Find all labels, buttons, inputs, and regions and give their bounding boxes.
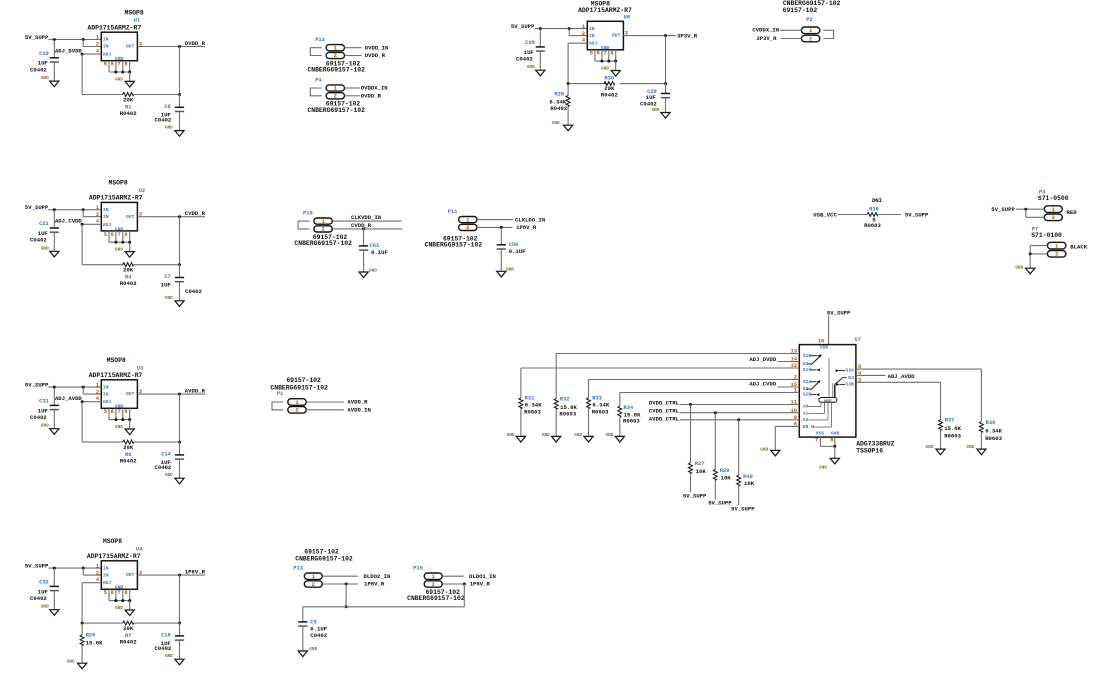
U7 right pin numbers [858,364,862,383]
svg-text:GND: GND [115,248,123,253]
svg-text:5V_SUPP: 5V_SUPP [731,505,755,512]
svg-text:GND: GND [115,425,123,430]
wire P10 pin 1 [332,220,401,222]
svg-text:20K: 20K [123,444,134,451]
connector P7 header labels [1031,227,1062,239]
wire 1P8V bus to C5 [303,584,465,622]
wire P2 pin 1 [780,29,801,31]
svg-text:S1B: S1B [803,353,812,359]
svg-text:ADJ_CVDD: ADJ_CVDD [749,381,776,388]
svg-text:IN: IN [589,26,595,32]
svg-text:RED: RED [1067,209,1078,216]
part number P1 [270,377,328,391]
svg-text:GND: GND [1015,265,1023,270]
capacitor C19 [30,40,59,82]
svg-text:C32: C32 [39,580,49,586]
svg-text:C14: C14 [161,452,171,458]
svg-text:CLKLDO_IN: CLKLDO_IN [515,216,545,223]
svg-text:S2A: S2A [803,379,812,385]
svg-text:C0402: C0402 [310,632,327,639]
svg-text:GND: GND [506,268,514,273]
ground at R28 [552,121,573,131]
ground at C32 [41,605,59,616]
svg-text:ADJ: ADJ [103,580,112,586]
svg-text:8: 8 [124,590,127,596]
svg-text:CVDD_R: CVDD_R [351,222,372,229]
svg-text:R0603: R0603 [944,432,961,439]
net 3P3V_R [756,35,777,42]
net 5V_SUPP at R27 [683,493,707,500]
net AVDD_CTRL [649,415,680,422]
wire P2 pin 2 [781,38,802,40]
svg-text:ADJ: ADJ [103,222,112,228]
refdes P2 [806,17,812,23]
svg-text:C0402: C0402 [30,595,47,602]
svg-text:3P3V_R: 3P3V_R [677,32,698,39]
svg-text:20K: 20K [123,267,134,274]
net 1P8V_R [185,568,206,575]
ground at R37 [926,445,946,455]
svg-text:R36: R36 [869,206,879,212]
resistor R6 20K [120,440,137,464]
net USB_VCC [813,212,837,219]
svg-text:C0402: C0402 [30,67,47,74]
svg-text:ADJ: ADJ [589,41,598,47]
svg-text:CLKVDD_IN: CLKVDD_IN [351,214,381,221]
wire U2 output [137,215,205,266]
ground at C28 [527,65,545,76]
ground at C61 [359,268,377,277]
connector P1 [277,391,306,414]
svg-text:1: 1 [96,382,99,388]
connector P13 [293,565,322,587]
svg-text:EN_N: EN_N [803,424,814,430]
svg-text:C0402: C0402 [30,414,47,421]
svg-text:3P3V_R: 3P3V_R [756,35,777,42]
net 3P3V_R [677,32,698,39]
svg-text:8: 8 [124,62,127,68]
svg-text:2: 2 [466,224,469,231]
net DVDD_CTRL [649,399,680,406]
svg-text:R30: R30 [604,75,614,81]
svg-text:5V_SUPP: 5V_SUPP [25,34,49,41]
net 1P8V_R [516,224,537,231]
svg-text:1UF: 1UF [161,282,172,289]
svg-text:C7: C7 [164,274,170,280]
svg-text:6.34K: 6.34K [985,427,1002,434]
wire 5V_SUPP to U4 pin 1 [48,567,101,576]
svg-text:BLACK: BLACK [1070,244,1087,251]
svg-text:CNBERG69157-102: CNBERG69157-102 [295,555,353,562]
svg-text:MSOP8: MSOP8 [107,357,126,364]
svg-text:GND: GND [606,433,614,438]
svg-text:1P8V_R: 1P8V_R [470,581,491,588]
wire U7 pin 12 to R31 [521,368,799,398]
wire ADJ node U4 [82,583,101,623]
svg-text:7: 7 [118,62,121,68]
connector P3 [1044,206,1062,221]
ground at R38 [966,445,986,455]
svg-text:S3B: S3B [845,382,854,388]
svg-text:5: 5 [104,62,107,68]
svg-text:GND: GND [369,268,377,273]
svg-text:CVDDX_IN: CVDDX_IN [752,27,779,34]
part number P2 [783,0,841,14]
net 5V_SUPP at P3 [991,206,1015,213]
capacitor C32 [30,568,59,610]
svg-text:2: 2 [96,389,99,395]
net AVDD_R [347,399,368,406]
svg-text:GND: GND [926,445,934,450]
svg-text:2: 2 [1055,251,1058,258]
svg-text:2: 2 [96,212,99,218]
svg-text:P1: P1 [277,391,283,397]
svg-text:C0402: C0402 [155,464,172,471]
net DVDD_R [185,40,206,47]
wire P7 to ground [1029,246,1048,269]
svg-text:5V_SUPP: 5V_SUPP [905,212,929,219]
svg-text:OUT: OUT [126,391,135,397]
ground at R34 [606,433,625,442]
net CVDDX_IN [752,27,779,34]
resistor R7 20K [120,621,137,645]
net DVDD_R [361,92,382,99]
ground at C31 [41,424,59,435]
net CLKVDD_IN [351,214,381,221]
svg-text:DVDD_R: DVDD_R [365,52,386,59]
svg-text:20K: 20K [123,97,134,104]
ground at R31 [507,433,526,442]
wire AVDD_CTRL to U7 pin 9 [680,418,799,475]
svg-text:GND: GND [67,660,75,665]
svg-text:VSS: VSS [816,430,825,436]
ground at U6 pins [601,67,620,77]
ground at C19 [41,76,59,87]
svg-text:P4: P4 [315,77,322,83]
wire U7 pin 1 to R34 [620,393,800,406]
svg-text:S71-0500: S71-0500 [1038,195,1069,202]
op-amp U3 header labels [89,357,144,379]
svg-text:GND: GND [41,76,49,81]
net ADJ_DVDD [55,47,82,54]
capacitor C61 0.1UF [359,228,389,272]
svg-text:R0603: R0603 [592,408,609,415]
svg-text:D3: D3 [848,375,854,381]
resistor R27 10K [689,461,707,492]
svg-text:2: 2 [295,407,298,414]
connector P10 [303,210,332,232]
wire feedback row U6 [568,83,665,85]
svg-text:69157-102: 69157-102 [304,548,339,555]
capacitor C50 0.1UF [497,228,526,272]
svg-text:2: 2 [1052,214,1055,221]
ground at U3 pins [115,425,134,435]
wire ADJ node U6 [568,43,587,83]
svg-text:A2: A2 [803,417,809,423]
svg-text:S3A: S3A [845,368,854,374]
wire 5V_SUPP to P3 [1016,208,1044,218]
capacitor C29 [640,84,670,113]
capacitor C5 0.1UF [298,620,328,652]
net 5V_SUPP at U4 [25,563,49,570]
U7 left pin numbers [791,349,798,428]
svg-text:5V_SUPP: 5V_SUPP [25,382,49,389]
svg-text:1: 1 [96,563,99,569]
wire ADJ node U2 [81,223,102,265]
svg-text:5V_SUPP: 5V_SUPP [708,500,732,507]
svg-text:R0402: R0402 [120,110,137,117]
ground at C18 [165,654,184,665]
resistor R37 15.8K [939,418,962,449]
svg-text:OUT: OUT [612,33,621,39]
ground at U7 [819,458,839,470]
wire shorting bracket P12 [310,48,321,56]
U7 internal switch S1 [808,354,822,371]
ground at C21 [41,246,59,257]
resistor R26 15.8K [80,622,103,664]
svg-text:OUT: OUT [126,572,135,578]
ground at U2 pins [115,248,134,258]
svg-text:GND: GND [552,121,560,126]
resistor R30 20K [601,75,618,98]
net DVDD_R [365,52,386,59]
svg-text:C5: C5 [310,620,316,626]
svg-text:16: 16 [818,338,824,344]
svg-text:GND: GND [819,465,827,470]
svg-text:A0: A0 [803,404,809,410]
U7 left pin names [803,353,814,430]
svg-text:GND: GND [165,126,173,131]
svg-text:R0603: R0603 [864,222,881,229]
wire P15 pin 2 [442,583,466,586]
svg-text:ADP1715ARMZ-R7: ADP1715ARMZ-R7 [89,372,143,379]
resistor R28 6.34K [549,82,570,125]
svg-text:IN: IN [103,572,109,578]
svg-text:U7: U7 [855,337,861,343]
wire feedback row U4 [82,622,179,624]
svg-text:IN: IN [103,391,109,397]
svg-text:ADP1715ARMZ-R7: ADP1715ARMZ-R7 [578,7,632,14]
resistor R36 0 ohm DNI [838,197,901,229]
svg-text:GND: GND [760,448,768,453]
svg-text:ADJ_AVDD: ADJ_AVDD [888,373,915,380]
svg-text:8: 8 [124,232,127,238]
capacitor C21 [30,210,59,252]
svg-text:7: 7 [118,590,121,596]
svg-text:P11: P11 [448,209,458,215]
wire U7 pin 2 to R33 [589,380,800,398]
svg-text:R37: R37 [945,418,955,424]
svg-text:R32: R32 [560,397,570,403]
op-amp U4 header labels [87,538,143,560]
resistor R40 10K [737,474,755,505]
wire ADJ node U1 [81,53,102,95]
svg-text:69157-102: 69157-102 [286,377,321,384]
svg-text:5V_SUPP: 5V_SUPP [991,206,1015,213]
svg-text:A1: A1 [803,411,809,417]
svg-text:0.1UF: 0.1UF [509,248,526,255]
wire CVDD_CTRL to U7 pin 10 [680,411,799,469]
capacitor C7 [161,265,203,301]
wire U4 output [137,574,205,625]
svg-text:C0402: C0402 [30,237,47,244]
svg-text:DVDD_IN: DVDD_IN [365,44,389,51]
capacitor C18 [155,623,185,659]
resistor R34 15.8K [618,405,641,437]
net DVDD_IN [365,44,389,51]
net AVDD_IN [347,406,371,413]
part number P15 [407,589,465,602]
svg-text:R38: R38 [986,420,996,426]
svg-text:P15: P15 [413,565,423,571]
resistor R1 20K [120,93,137,117]
svg-text:2: 2 [334,52,337,59]
svg-text:S2B: S2B [803,392,812,398]
net 5V_SUPP at R36 [905,212,929,219]
resistor R33 6.34K [587,396,610,437]
net 5V_SUPP at U7 [827,310,851,317]
svg-text:10K: 10K [721,474,732,481]
svg-text:GND: GND [165,473,173,478]
svg-text:TSSOP16: TSSOP16 [856,448,883,455]
svg-text:CNBERG69157-102: CNBERG69157-102 [294,240,352,247]
ground at U4 pins [115,606,134,616]
svg-text:GND: GND [542,433,550,438]
U7 internal switch S2 [807,380,821,396]
svg-text:GND: GND [831,430,840,436]
wire 5V_SUPP to U1 pin 1 [48,38,101,47]
ground at R32 [542,433,561,442]
wire U7 pin 13 to R32 [556,354,799,399]
svg-text:C18: C18 [161,633,171,639]
pin numbers U4 [96,563,142,596]
connector P3 header labels [1038,190,1069,202]
svg-text:OUT: OUT [126,44,135,50]
net 5V_SUPP at R29 [708,500,732,507]
op-amp U1 header labels [88,10,144,32]
svg-text:C31: C31 [39,399,49,405]
svg-text:C19: C19 [39,51,49,57]
svg-text:2: 2 [809,35,812,42]
net 1P8V_R [470,581,491,588]
wire P15 pin 1 [442,575,464,577]
wire feedback row U1 [82,94,179,96]
svg-text:8: 8 [610,51,613,57]
svg-text:8: 8 [124,409,127,415]
IC U3 ADP1715ARMZ-R7 body [101,380,137,410]
resistor R32 15.8K [554,397,577,437]
wire feedback row U3 [82,441,179,443]
svg-text:P13: P13 [293,565,303,571]
resistor R4 20K [120,263,137,287]
svg-text:DVDD_R: DVDD_R [185,40,206,47]
wire shorting bracket P10 [298,221,309,229]
U7 right pin names [845,368,854,388]
svg-text:1P8V_R: 1P8V_R [185,568,206,575]
svg-text:P2: P2 [806,17,812,23]
pin numbers U1 [96,35,142,68]
part number P13 [295,548,353,562]
svg-text:6: 6 [111,232,114,238]
wire U1 output [137,45,205,96]
part number P12 [307,60,365,73]
U7 internal switch S3 [835,369,847,398]
part number P10 [294,234,352,247]
svg-text:ADG733BRUZ: ADG733BRUZ [856,440,895,447]
wire P13 pin 2 [323,583,358,586]
svg-text:6: 6 [111,590,114,596]
capacitor C31 [30,387,59,429]
svg-text:2: 2 [96,570,99,576]
svg-text:R28: R28 [554,91,564,97]
svg-text:R0402: R0402 [120,280,137,287]
svg-text:VDD: VDD [820,344,829,350]
wire DVDD_CTRL to U7 pin 11 [680,403,799,463]
svg-text:C0402: C0402 [185,288,202,295]
svg-text:2: 2 [321,226,324,233]
connector P7 [1047,242,1066,257]
capacitor C14 [155,442,185,478]
connector P12 [315,37,344,59]
svg-text:R0402: R0402 [601,92,618,99]
wire U4 ground pins 5-8 [109,589,131,610]
op-amp U2 header labels [89,180,145,202]
svg-text:GND: GND [601,67,609,72]
svg-text:ADP1715ARMZ-R7: ADP1715ARMZ-R7 [89,195,143,202]
svg-text:AVDD_R: AVDD_R [347,399,368,406]
svg-text:U6: U6 [624,15,630,21]
svg-text:IN: IN [103,565,109,571]
svg-text:7: 7 [815,437,818,443]
wire P4 pin 2 [345,95,360,97]
net DVDDX_IN [361,85,388,92]
svg-text:IN: IN [103,214,109,220]
capacitor C6 [155,95,185,131]
svg-text:CVDD_CTRL: CVDD_CTRL [649,408,680,415]
svg-text:5V_SUPP: 5V_SUPP [683,493,707,500]
label BLACK [1070,244,1087,251]
svg-text:1: 1 [96,35,99,41]
svg-text:2: 2 [96,42,99,48]
svg-text:IN: IN [589,33,595,39]
connector P11 [448,209,477,231]
wire P1 pin 1 [306,401,344,403]
IC U1 ADP1715ARMZ-R7 body [101,32,137,62]
connector P4 [315,77,344,99]
svg-text:MSOP8: MSOP8 [103,538,122,545]
svg-text:GND: GND [115,606,123,611]
svg-text:ADJ_CVDD: ADJ_CVDD [55,218,82,225]
svg-text:6: 6 [111,62,114,68]
ground at P7 [1015,265,1035,274]
svg-text:R0402: R0402 [120,457,137,464]
pin numbers U6 [582,24,628,57]
wire 5V_SUPP to U3 pin 1 [48,386,101,395]
wire 5V_SUPP to U7 VDD pin 16 [828,316,830,345]
svg-text:5: 5 [104,590,107,596]
connector P2 [801,27,819,42]
svg-text:R34: R34 [624,405,634,411]
svg-text:10K: 10K [696,468,707,475]
svg-text:R0603: R0603 [559,411,576,418]
svg-text:C0402: C0402 [640,100,657,107]
wire P12 pin 1 [345,47,362,49]
svg-text:5: 5 [590,51,593,57]
capacitor C28 [516,29,545,71]
wire 5V_SUPP to U6 pin 1 [534,27,587,35]
svg-text:5V_SUPP: 5V_SUPP [25,204,49,211]
net AVDD_R [185,387,206,394]
